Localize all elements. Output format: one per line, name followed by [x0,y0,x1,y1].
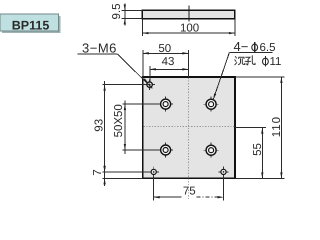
counterbored hole C3 (bottom-left) [158,143,173,158]
tapped hole M3 (bottom-right M6) [218,167,228,177]
dim 75 dimension line [154,196,182,198]
dim 100 extension lines [142,20,235,37]
svg-text:BP115: BP115 [12,18,50,32]
dim 100 dimension line [142,32,235,34]
dim 9.5 extension lines [122,10,143,18]
dim 50 extension lines [143,50,188,77]
dim 43 dimension line [150,68,189,70]
side view center tick [188,6,190,22]
svg-text:50X50: 50X50 [113,104,125,137]
counterbored hole C1 (top-left) [158,97,173,112]
dim 75 extension lines [154,175,224,201]
svg-text:3−M6: 3−M6 [82,40,117,55]
svg-text:55: 55 [252,143,264,156]
dim 50 dimension line [143,52,188,54]
svg-text:11: 11 [270,56,282,68]
counterbored hole C2 (top-right) [204,97,219,112]
main view plate body [143,77,235,178]
svg-text:43: 43 [162,56,175,68]
label phi-11 diameter symbol [263,56,269,67]
label CJK "chen" (counterbore) character [235,57,245,65]
label CJK "kong" (hole) character [245,56,255,65]
dim 110 arrows [280,77,282,83]
dim 110/55 bottom extension line [235,177,284,179]
leader and label 3-M6 [78,40,153,88]
svg-text:93: 93 [93,119,105,132]
dim 55 extension line [235,127,266,129]
dim 43 extension line [149,66,151,89]
vertical center line (dashed) [187,78,189,201]
leader and label 4-phi6.5 counterbore [213,39,276,101]
dim 93 and 7 shared dimension line [104,81,106,186]
diameter symbol of 6.5 [252,42,258,53]
svg-text:50: 50 [158,43,171,55]
svg-text:4−: 4− [234,39,249,54]
dim 93 arrows [103,85,105,91]
tapped hole M1 (top-left M6) [144,79,154,89]
dim 110 dimension line [280,77,282,178]
dim 100 arrows [142,32,148,34]
counterbored hole C4 (bottom-right) [204,143,219,158]
dim 7 arrows (outside) [103,166,105,172]
dim 50X50 extension lines [123,104,161,150]
tapped hole M2 (bottom-left M6) [149,167,159,177]
svg-text:75: 75 [183,186,196,198]
side view plate body [142,10,235,18]
svg-text:7: 7 [92,169,104,175]
dim 50X50 arrows [124,104,126,110]
dim 9.5 dimension line [124,3,126,25]
dim 50X50 dimension line [124,101,126,154]
dim 110 top extension line [235,76,284,78]
dim 9.5 arrows [124,5,126,11]
svg-text:9.5: 9.5 [111,4,123,20]
dim 75 arrows [154,196,160,198]
horizontal center line (dashed) [144,125,235,127]
svg-text:100: 100 [180,23,199,35]
dim 55 dimension line [261,128,263,179]
part number label BP115 [0,14,61,33]
svg-text:110: 110 [271,116,283,137]
dim 50 arrows [143,52,149,54]
dim 55 arrows [261,128,263,134]
dim 93 / dim 7 shared extension lines [102,85,151,179]
dim 43 arrows [150,68,156,70]
